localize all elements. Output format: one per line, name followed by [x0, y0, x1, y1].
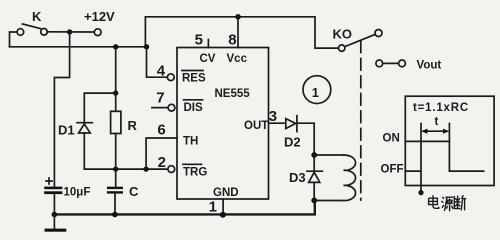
- wire: OUT pin 3: [269, 122, 286, 124]
- svg-text:CV: CV: [200, 53, 216, 65]
- svg-text:6: 6: [157, 122, 165, 139]
- wire: 10uF to ground rail: [53, 194, 55, 214]
- svg-text:DIS: DIS: [184, 102, 204, 114]
- wire: switch to +12V terminal: [47, 31, 94, 33]
- glyph yuan: [442, 197, 445, 208]
- node: TH branch junction: [143, 166, 148, 171]
- svg-text:OUT: OUT: [244, 120, 268, 132]
- svg-text:D1: D1: [58, 123, 75, 138]
- diode D3 cathode bar: [307, 170, 322, 172]
- svg-text:D3: D3: [289, 170, 306, 185]
- wire: bottom ground rail: [54, 201, 314, 215]
- resistor R wire bottom: [115, 134, 117, 170]
- svg-text:GND: GND: [213, 187, 239, 199]
- label dian-yuan-duan (power cut) hand-drawn glyphs: [429, 195, 467, 211]
- svg-text:TRG: TRG: [183, 167, 207, 179]
- circled 1 node marker: [303, 76, 331, 104]
- timing diagram box: [405, 96, 494, 185]
- relay coil (3 arcs): [344, 155, 356, 200]
- svg-text:K: K: [32, 9, 42, 24]
- wire: D1 to bottom node: [83, 133, 85, 169]
- node: R bottom junction: [113, 166, 118, 171]
- svg-text:Vcc: Vcc: [227, 53, 248, 65]
- dashed mechanical link line: [360, 41, 362, 200]
- pin 7 terminal circle: [168, 104, 175, 111]
- wire: horizontal supply line y=47: [10, 46, 148, 48]
- diode D2 triangle: [286, 119, 296, 129]
- pin 4 RES terminal circle: [167, 74, 174, 81]
- glyph dian: [433, 195, 439, 208]
- wire: from junction down with jog to 10uF capacitor: [54, 32, 69, 187]
- node: junction supply line x=116: [113, 44, 118, 49]
- waveform OFF lead line: [405, 170, 421, 172]
- wire: relay coil top: [314, 154, 343, 156]
- node: C at rail: [112, 212, 118, 218]
- pin 7 DIS stub: [152, 107, 169, 109]
- diode D2 cathode bar: [296, 116, 298, 132]
- switch KO terminal left: [339, 45, 345, 51]
- ground symbol: [53, 214, 55, 229]
- wire: C cap branch down: [115, 169, 117, 187]
- svg-text:3: 3: [269, 108, 277, 125]
- waveform ON level line: [405, 140, 449, 142]
- node: D1/R top junction: [113, 90, 118, 95]
- event line power-off: [420, 124, 422, 193]
- svg-text:R: R: [128, 118, 138, 133]
- resistor R wire top: [115, 93, 117, 111]
- svg-text:10μF: 10μF: [64, 187, 91, 199]
- switch K terminal right: [41, 29, 48, 36]
- glyph duan: [454, 196, 460, 209]
- capacitor 10uF polarity plus: [46, 178, 52, 184]
- capacitor C plate top: [107, 187, 123, 189]
- svg-text:Vout: Vout: [417, 60, 442, 72]
- node: junction x=146.5 on supply line: [144, 44, 149, 49]
- +12V terminal: [94, 29, 101, 36]
- svg-text:5: 5: [195, 32, 203, 49]
- svg-text:8: 8: [228, 32, 236, 49]
- wire: branch to D1: [84, 93, 115, 122]
- svg-text:t=1.1xRC: t=1.1xRC: [413, 102, 469, 114]
- node: 10uF at rail: [52, 212, 58, 218]
- wire: Vcc pin 8 drop: [237, 17, 239, 48]
- svg-text:t: t: [435, 116, 439, 128]
- diode D3 triangle: [309, 172, 320, 182]
- capacitor 10uF plate top: [44, 187, 62, 190]
- node: pin1 at rail: [220, 212, 226, 218]
- wire: between Vout terminals: [383, 62, 399, 64]
- node: Vcc junction on top rail: [235, 14, 241, 20]
- switch K terminal left: [17, 29, 24, 36]
- waveform fall edge and OFF tail: [449, 124, 483, 172]
- diode D1 cathode bar: [77, 122, 92, 124]
- wire: riser to top rail: [144, 17, 146, 47]
- svg-text:C: C: [129, 184, 139, 199]
- svg-text:4: 4: [157, 63, 166, 80]
- switch KO terminal upper right: [375, 30, 382, 37]
- switch KO lever: [345, 35, 375, 47]
- arrow t duration: [424, 130, 447, 132]
- wire: C to rail: [114, 194, 116, 215]
- op IC NE555 box: [177, 48, 269, 200]
- node: event dot: [418, 190, 423, 195]
- wire: D2 to relay node: [298, 123, 315, 155]
- svg-text:7: 7: [156, 90, 164, 107]
- pin 2 TRG terminal circle: [168, 166, 175, 173]
- diode D3 wire bottom: [313, 182, 315, 200]
- capacitor C plate bottom: [107, 191, 123, 193]
- node: junction at x=69.6 y=32: [67, 29, 72, 34]
- wire: top rail: [145, 17, 338, 48]
- svg-text:1: 1: [209, 199, 217, 216]
- capacitor 10uF plate bottom: [44, 191, 62, 194]
- svg-text:KO: KO: [333, 27, 353, 42]
- wire: down to D1/R top node: [115, 47, 117, 93]
- node: relay top junction: [311, 152, 317, 158]
- switch K lever: [23, 24, 41, 29]
- resistor R body: [111, 111, 121, 133]
- wire: jog to pin 4: [147, 47, 168, 77]
- wire: left loop from switch K down left side: [10, 32, 18, 47]
- node: relay bottom junction: [311, 198, 317, 204]
- pin 5 stub: [207, 40, 209, 48]
- svg-text:1: 1: [312, 85, 319, 100]
- Vout terminal left: [376, 60, 383, 67]
- wire: pin 1 to rail: [222, 199, 224, 215]
- Vout terminal right: [399, 60, 406, 67]
- wire: relay coil bottom: [314, 200, 343, 202]
- svg-text:D2: D2: [284, 135, 301, 150]
- svg-text:+12V: +12V: [84, 9, 115, 24]
- wire: TH branch up and right to pin 6: [146, 138, 177, 169]
- svg-text:RES: RES: [182, 73, 206, 85]
- svg-text:2: 2: [158, 154, 166, 171]
- svg-text:TH: TH: [183, 136, 198, 148]
- wire: bottom node horizontal to TRG: [84, 168, 168, 170]
- diode D1 triangle: [79, 124, 91, 133]
- svg-text:OFF: OFF: [381, 164, 404, 176]
- svg-text:ON: ON: [383, 133, 400, 145]
- svg-text:NE555: NE555: [215, 88, 251, 100]
- diode D3 wire top: [313, 155, 315, 171]
